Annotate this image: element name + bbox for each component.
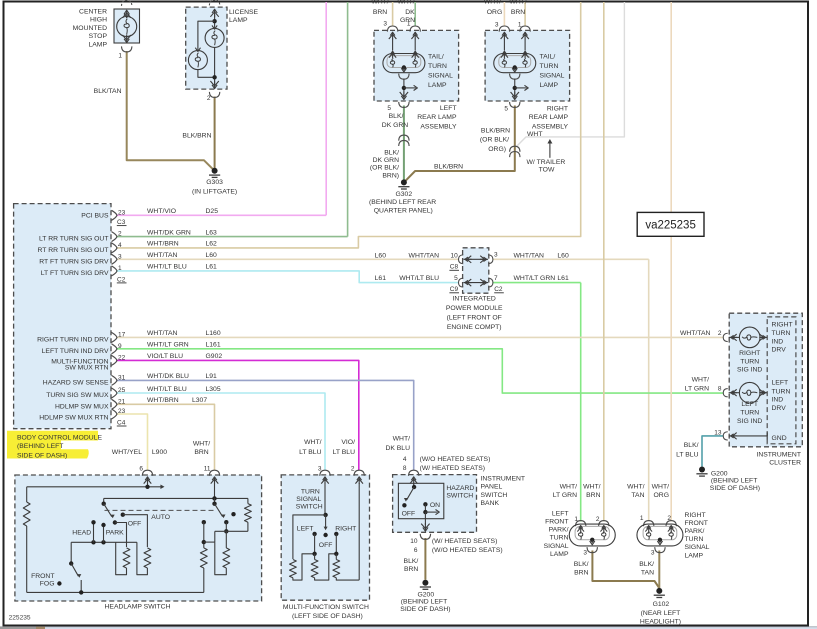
- svg-text:BRN: BRN: [511, 9, 525, 16]
- svg-text:TURN: TURN: [301, 489, 320, 496]
- svg-text:INSTRUMENT: INSTRUMENT: [481, 476, 526, 483]
- svg-text:(W/O HEATED SEATS): (W/O HEATED SEATS): [420, 456, 491, 463]
- svg-text:WHT/TAN: WHT/TAN: [147, 330, 178, 337]
- svg-text:INTEGRATED: INTEGRATED: [453, 296, 496, 303]
- svg-text:PARK/: PARK/: [549, 527, 569, 534]
- svg-text:TURN: TURN: [540, 63, 559, 70]
- svg-text:(IN LIFTGATE): (IN LIFTGATE): [192, 189, 237, 196]
- svg-text:4: 4: [118, 242, 122, 249]
- svg-text:LAMP: LAMP: [540, 82, 559, 89]
- svg-text:31: 31: [118, 374, 126, 381]
- svg-text:L61: L61: [375, 275, 387, 282]
- svg-text:10: 10: [410, 538, 418, 545]
- svg-text:WHT/LT GRN: WHT/LT GRN: [514, 275, 556, 282]
- svg-text:G303: G303: [206, 179, 223, 186]
- svg-text:WHT/: WHT/: [304, 439, 321, 446]
- svg-text:L60: L60: [206, 252, 218, 259]
- svg-text:2: 2: [596, 516, 600, 523]
- svg-text:(NEAR LEFT: (NEAR LEFT: [641, 610, 681, 617]
- svg-text:TURN: TURN: [740, 359, 759, 366]
- svg-text:HDLMP SW MUX: HDLMP SW MUX: [55, 403, 109, 410]
- svg-text:SIDE OF DASH): SIDE OF DASH): [400, 606, 450, 613]
- svg-text:G102: G102: [653, 601, 670, 608]
- svg-text:10: 10: [450, 252, 458, 259]
- svg-text:MULTI-FUNCTION SWITCH: MULTI-FUNCTION SWITCH: [283, 604, 369, 611]
- svg-text:BLK/TAN: BLK/TAN: [94, 88, 122, 95]
- svg-text:TURN SIG SW MUX: TURN SIG SW MUX: [46, 392, 109, 399]
- svg-text:SIGNAL: SIGNAL: [540, 73, 565, 80]
- svg-text:ORG): ORG): [488, 146, 506, 153]
- svg-text:1: 1: [640, 515, 644, 522]
- svg-text:DRV: DRV: [772, 347, 787, 354]
- svg-text:7: 7: [494, 275, 498, 282]
- svg-text:BRN: BRN: [404, 566, 418, 573]
- svg-text:RT FT TURN SIG DRV: RT FT TURN SIG DRV: [39, 258, 109, 265]
- svg-text:WHT/VIO: WHT/VIO: [147, 208, 176, 215]
- svg-text:LAMP: LAMP: [88, 41, 107, 48]
- svg-text:BLK/: BLK/: [389, 113, 404, 120]
- svg-text:LEFT: LEFT: [297, 525, 314, 532]
- svg-text:ASSEMBLY: ASSEMBLY: [420, 123, 457, 130]
- svg-text:1: 1: [574, 516, 578, 523]
- svg-text:(BEHIND LEFT REAR: (BEHIND LEFT REAR: [369, 199, 436, 206]
- svg-text:TURN: TURN: [740, 410, 759, 417]
- svg-text:23: 23: [118, 209, 126, 216]
- svg-text:POWER MODULE: POWER MODULE: [446, 305, 503, 312]
- svg-text:WHT/TAN: WHT/TAN: [409, 252, 440, 259]
- svg-text:LEFT: LEFT: [772, 380, 789, 387]
- svg-text:TAN: TAN: [631, 492, 644, 499]
- svg-text:BLK/: BLK/: [639, 561, 654, 568]
- svg-text:FOG: FOG: [40, 581, 55, 588]
- svg-text:L307: L307: [192, 397, 207, 404]
- svg-text:VIO/LT BLU: VIO/LT BLU: [147, 353, 183, 360]
- svg-text:L62: L62: [206, 241, 218, 248]
- svg-text:WHT/DK BLU: WHT/DK BLU: [147, 373, 189, 380]
- svg-text:(OR BLK/: (OR BLK/: [370, 164, 399, 171]
- svg-text:DRV: DRV: [772, 405, 787, 412]
- svg-text:SIGNAL: SIGNAL: [544, 543, 569, 550]
- svg-text:SWITCH: SWITCH: [446, 493, 473, 500]
- svg-text:8: 8: [718, 386, 722, 393]
- svg-text:BRN: BRN: [194, 449, 208, 456]
- svg-text:2: 2: [718, 330, 722, 337]
- svg-text:WHT/YEL: WHT/YEL: [112, 449, 142, 456]
- svg-text:6: 6: [414, 547, 418, 554]
- svg-text:C8: C8: [450, 264, 459, 271]
- svg-text:PARK/: PARK/: [685, 528, 705, 535]
- svg-text:RIGHT: RIGHT: [685, 512, 706, 519]
- svg-text:IND: IND: [772, 397, 784, 404]
- svg-text:5: 5: [504, 105, 508, 112]
- svg-text:ON: ON: [430, 502, 440, 509]
- svg-text:LT GRN: LT GRN: [553, 492, 577, 499]
- svg-text:BLK/BRN: BLK/BRN: [434, 164, 463, 171]
- svg-text:G200: G200: [417, 591, 434, 598]
- svg-text:2: 2: [667, 515, 671, 522]
- svg-text:RIGHT: RIGHT: [739, 350, 760, 357]
- svg-text:TAIL/: TAIL/: [540, 54, 556, 61]
- svg-text:BODY CONTROL MODULE: BODY CONTROL MODULE: [17, 434, 102, 441]
- svg-text:ORG: ORG: [487, 9, 502, 16]
- svg-text:8: 8: [403, 465, 407, 472]
- svg-text:HEAD: HEAD: [72, 530, 91, 537]
- svg-text:LEFT: LEFT: [741, 401, 758, 408]
- svg-text:L161: L161: [206, 342, 221, 349]
- svg-text:(BEHIND LEFT: (BEHIND LEFT: [17, 443, 63, 450]
- svg-text:L305: L305: [206, 386, 221, 393]
- svg-text:TURN: TURN: [685, 536, 704, 543]
- svg-text:2: 2: [207, 95, 211, 102]
- svg-text:OFF: OFF: [128, 520, 142, 527]
- svg-text:LEFT: LEFT: [552, 510, 569, 517]
- svg-text:WHT/LT GRN: WHT/LT GRN: [147, 342, 189, 349]
- svg-text:SWITCH: SWITCH: [296, 504, 323, 511]
- svg-text:OFF: OFF: [319, 542, 333, 549]
- svg-text:L900: L900: [152, 449, 167, 456]
- svg-text:LT BLU: LT BLU: [676, 451, 699, 458]
- svg-text:WHT/: WHT/: [652, 483, 669, 490]
- svg-text:1: 1: [118, 53, 122, 60]
- svg-text:WHT/TAN: WHT/TAN: [147, 252, 178, 259]
- svg-text:5: 5: [387, 105, 391, 112]
- svg-text:TAN: TAN: [641, 569, 654, 576]
- svg-text:SIG IND: SIG IND: [737, 418, 762, 425]
- svg-text:(LEFT SIDE OF DASH): (LEFT SIDE OF DASH): [292, 613, 363, 620]
- svg-text:GND: GND: [772, 435, 787, 442]
- svg-text:PANEL: PANEL: [481, 484, 503, 491]
- svg-text:WHT/: WHT/: [509, 0, 526, 6]
- svg-text:BLK/: BLK/: [574, 561, 589, 568]
- svg-text:SIGNAL: SIGNAL: [685, 544, 710, 551]
- svg-text:(BEHIND LEFT: (BEHIND LEFT: [401, 599, 447, 606]
- svg-text:1: 1: [407, 21, 411, 28]
- svg-text:21: 21: [118, 398, 126, 405]
- svg-text:(LEFT FRONT OF: (LEFT FRONT OF: [447, 314, 502, 321]
- svg-text:REAR LAMP: REAR LAMP: [529, 114, 569, 121]
- svg-text:LT BLU: LT BLU: [299, 449, 322, 456]
- svg-text:VIO/: VIO/: [341, 439, 355, 446]
- svg-text:WHT/LT BLU: WHT/LT BLU: [147, 264, 187, 271]
- svg-text:WHT/: WHT/: [393, 435, 410, 442]
- svg-text:DK GRN: DK GRN: [382, 122, 409, 129]
- svg-text:WHT/TAN: WHT/TAN: [680, 330, 711, 337]
- svg-text:5: 5: [454, 275, 458, 282]
- svg-text:C3: C3: [117, 219, 126, 226]
- svg-text:TURN: TURN: [550, 535, 569, 542]
- svg-text:L63: L63: [206, 229, 218, 236]
- svg-text:SIDE OF DASH): SIDE OF DASH): [17, 452, 67, 459]
- svg-text:C4: C4: [117, 419, 126, 426]
- svg-text:9: 9: [118, 343, 122, 350]
- svg-text:BLK/BRN: BLK/BRN: [481, 128, 510, 135]
- svg-text:WHT/: WHT/: [193, 441, 210, 448]
- svg-text:WHT/DK GRN: WHT/DK GRN: [147, 229, 191, 236]
- svg-text:LT RR TURN SIG OUT: LT RR TURN SIG OUT: [39, 236, 109, 243]
- svg-text:LT BLU: LT BLU: [333, 449, 356, 456]
- svg-text:23: 23: [118, 408, 126, 415]
- svg-text:(BEHIND LEFT: (BEHIND LEFT: [711, 478, 757, 485]
- svg-text:WHT/: WHT/: [484, 0, 501, 6]
- svg-text:G200: G200: [711, 470, 728, 477]
- svg-text:BLK/: BLK/: [684, 442, 699, 449]
- svg-text:LAMP: LAMP: [229, 17, 248, 24]
- svg-text:LAMP: LAMP: [550, 551, 569, 558]
- svg-text:ASSEMBLY: ASSEMBLY: [532, 123, 569, 130]
- svg-text:25: 25: [118, 387, 126, 394]
- svg-text:L91: L91: [206, 373, 218, 380]
- svg-text:LAMP: LAMP: [685, 552, 704, 559]
- svg-text:WHT/: WHT/: [560, 483, 577, 490]
- svg-text:L160: L160: [206, 330, 221, 337]
- svg-text:FRONT: FRONT: [31, 573, 54, 580]
- svg-text:22: 22: [118, 354, 126, 361]
- svg-text:AUTO: AUTO: [151, 514, 170, 521]
- svg-text:WHT: WHT: [527, 131, 542, 138]
- svg-text:3: 3: [383, 21, 387, 28]
- svg-text:BLK/: BLK/: [404, 558, 419, 565]
- svg-text:QUARTER PANEL): QUARTER PANEL): [374, 208, 433, 215]
- svg-text:WHT/: WHT/: [692, 376, 709, 383]
- svg-text:3: 3: [583, 550, 587, 557]
- svg-text:BANK: BANK: [481, 500, 500, 507]
- svg-text:L61: L61: [557, 275, 569, 282]
- svg-text:2: 2: [351, 466, 355, 473]
- svg-text:225235: 225235: [9, 615, 31, 622]
- svg-text:HAZARD: HAZARD: [446, 485, 474, 492]
- svg-text:WHT/: WHT/: [397, 0, 414, 6]
- svg-text:INSTRUMENT: INSTRUMENT: [756, 451, 801, 458]
- svg-text:FRONT: FRONT: [685, 520, 708, 527]
- svg-text:HEADLIGHT): HEADLIGHT): [640, 618, 681, 625]
- svg-text:DK GRN: DK GRN: [373, 157, 400, 164]
- svg-text:RIGHT: RIGHT: [335, 525, 356, 532]
- svg-text:G902: G902: [206, 353, 223, 360]
- svg-text:TAIL/: TAIL/: [428, 54, 444, 61]
- svg-text:6: 6: [139, 466, 143, 473]
- svg-text:HEADLAMP SWITCH: HEADLAMP SWITCH: [105, 603, 171, 610]
- svg-text:WHT/: WHT/: [627, 483, 644, 490]
- svg-text:PARK: PARK: [106, 530, 124, 537]
- svg-text:2: 2: [118, 231, 122, 238]
- svg-text:TOW: TOW: [539, 166, 555, 173]
- svg-text:SW MUX RTN: SW MUX RTN: [65, 365, 109, 372]
- svg-text:L60: L60: [557, 252, 569, 259]
- svg-text:D25: D25: [206, 208, 219, 215]
- svg-text:HIGH: HIGH: [90, 17, 107, 24]
- svg-text:STOP: STOP: [89, 33, 108, 40]
- svg-text:BRN: BRN: [586, 492, 600, 499]
- svg-text:13: 13: [714, 429, 722, 436]
- svg-text:HAZARD SW SENSE: HAZARD SW SENSE: [43, 379, 109, 386]
- svg-text:SIGNAL: SIGNAL: [428, 73, 453, 80]
- svg-text:3: 3: [494, 252, 498, 259]
- svg-text:REAR LAMP: REAR LAMP: [417, 114, 457, 121]
- svg-text:CENTER: CENTER: [79, 9, 107, 16]
- svg-text:(W/O HEATED SEATS): (W/O HEATED SEATS): [432, 547, 503, 554]
- svg-text:1: 1: [518, 22, 522, 29]
- svg-text:L61: L61: [206, 264, 218, 271]
- svg-text:IND: IND: [772, 338, 784, 345]
- svg-text:BLK/: BLK/: [384, 149, 399, 156]
- svg-text:CLUSTER: CLUSTER: [769, 460, 801, 467]
- svg-text:TURN: TURN: [428, 63, 447, 70]
- svg-text:MOUNTED: MOUNTED: [73, 25, 107, 32]
- svg-text:va225235: va225235: [645, 220, 696, 232]
- svg-text:WHT/: WHT/: [371, 0, 388, 6]
- svg-text:(W/ HEATED SEATS): (W/ HEATED SEATS): [432, 538, 497, 545]
- svg-text:HDLMP SW MUX RTN: HDLMP SW MUX RTN: [39, 415, 108, 422]
- svg-text:WHT/LT BLU: WHT/LT BLU: [147, 386, 187, 393]
- svg-text:RIGHT: RIGHT: [772, 321, 793, 328]
- svg-text:SIG IND: SIG IND: [737, 367, 762, 374]
- svg-text:C2: C2: [117, 276, 126, 283]
- svg-text:FRONT: FRONT: [545, 519, 568, 526]
- svg-text:DK BLU: DK BLU: [385, 445, 410, 452]
- svg-text:RIGHT: RIGHT: [547, 105, 568, 112]
- svg-text:TURN: TURN: [772, 389, 791, 396]
- svg-text:BRN: BRN: [373, 9, 387, 16]
- svg-text:BRN): BRN): [382, 172, 399, 179]
- svg-text:PCI BUS: PCI BUS: [81, 213, 109, 220]
- svg-text:LT FT TURN SIG DRV: LT FT TURN SIG DRV: [41, 270, 109, 277]
- svg-text:11: 11: [204, 466, 211, 473]
- svg-text:C2: C2: [494, 286, 503, 293]
- svg-text:LICENSE: LICENSE: [229, 9, 259, 16]
- svg-text:3: 3: [651, 550, 655, 557]
- svg-text:DK: DK: [405, 9, 415, 16]
- svg-text:W/ TRAILER: W/ TRAILER: [527, 159, 566, 166]
- svg-text:WHT/TAN: WHT/TAN: [514, 252, 545, 259]
- svg-text:L60: L60: [375, 252, 387, 259]
- svg-text:G302: G302: [395, 191, 412, 198]
- svg-text:(OR BLK/: (OR BLK/: [480, 137, 509, 144]
- svg-text:BLK/BRN: BLK/BRN: [182, 132, 211, 139]
- svg-text:LT GRN: LT GRN: [685, 386, 709, 393]
- svg-text:RIGHT TURN IND DRV: RIGHT TURN IND DRV: [37, 336, 109, 343]
- svg-text:WHT/: WHT/: [583, 483, 600, 490]
- svg-text:SWITCH: SWITCH: [481, 492, 508, 499]
- svg-text:RT RR TURN SIG OUT: RT RR TURN SIG OUT: [38, 247, 109, 254]
- svg-text:3: 3: [318, 466, 322, 473]
- svg-text:WHT/BRN: WHT/BRN: [147, 397, 179, 404]
- svg-text:LEFT: LEFT: [440, 105, 457, 112]
- svg-text:4: 4: [403, 456, 407, 463]
- svg-text:WHT/BRN: WHT/BRN: [147, 241, 179, 248]
- svg-text:C9: C9: [450, 286, 459, 293]
- svg-text:TURN: TURN: [772, 330, 791, 337]
- svg-text:OFF: OFF: [402, 510, 416, 517]
- svg-text:SIDE OF DASH): SIDE OF DASH): [710, 485, 760, 492]
- svg-text:ENGINE COMPT): ENGINE COMPT): [447, 324, 502, 331]
- svg-text:1: 1: [118, 265, 122, 272]
- svg-text:ORG: ORG: [654, 492, 669, 499]
- svg-text:BRN: BRN: [574, 569, 588, 576]
- svg-text:(W/ HEATED SEATS): (W/ HEATED SEATS): [420, 465, 485, 472]
- svg-text:SIGNAL: SIGNAL: [296, 496, 321, 503]
- svg-text:3: 3: [495, 22, 499, 29]
- svg-text:WHT/LT BLU: WHT/LT BLU: [399, 275, 439, 282]
- svg-text:17: 17: [118, 331, 126, 338]
- svg-text:3: 3: [118, 253, 122, 260]
- svg-text:LAMP: LAMP: [428, 82, 447, 89]
- svg-text:LEFT TURN IND DRV: LEFT TURN IND DRV: [42, 348, 109, 355]
